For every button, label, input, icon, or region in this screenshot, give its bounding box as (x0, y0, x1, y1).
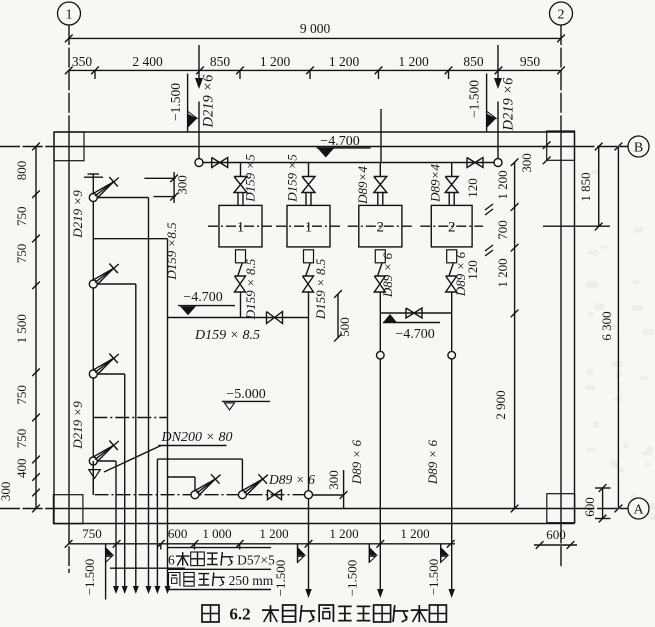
svg-text:D89 × 6: D89 × 6 (349, 439, 364, 485)
svg-text:300: 300 (175, 175, 190, 195)
svg-text:B: B (634, 140, 643, 155)
svg-text:300: 300 (0, 482, 13, 502)
svg-text:800: 800 (14, 161, 29, 181)
svg-text:1 200: 1 200 (495, 258, 510, 287)
svg-text:1 500: 1 500 (14, 314, 29, 343)
svg-text:950: 950 (520, 54, 541, 69)
svg-text:2: 2 (377, 220, 385, 236)
svg-text:−4.700: −4.700 (183, 290, 222, 305)
svg-text:6 300: 6 300 (599, 311, 614, 340)
svg-text:D89 × 6: D89 × 6 (380, 252, 395, 298)
svg-text:−1.500: −1.500 (273, 560, 288, 597)
svg-text:500: 500 (337, 317, 352, 337)
svg-text:−1.500: −1.500 (426, 559, 441, 596)
svg-text:1 200: 1 200 (260, 54, 291, 69)
svg-text:D159 ×5: D159 ×5 (243, 154, 258, 203)
svg-text:−1.500: −1.500 (345, 560, 360, 597)
svg-text:750: 750 (14, 207, 29, 227)
svg-text:D159 ×8.5: D159 ×8.5 (164, 222, 179, 281)
svg-text:−1.500: −1.500 (168, 83, 183, 121)
svg-text:400: 400 (14, 458, 29, 478)
svg-text:2: 2 (558, 7, 565, 22)
svg-text:−5.000: −5.000 (226, 387, 265, 402)
svg-text:D159 × 8.5: D159 × 8.5 (243, 258, 258, 320)
svg-text:2: 2 (448, 220, 456, 236)
svg-text:2 900: 2 900 (493, 390, 508, 419)
svg-text:1 200: 1 200 (329, 54, 360, 69)
svg-text:750: 750 (14, 429, 29, 449)
svg-text:1: 1 (237, 220, 245, 236)
svg-text:D219 ×6: D219 ×6 (501, 77, 517, 132)
svg-text:1: 1 (305, 220, 313, 236)
svg-text:D89 × 6: D89 × 6 (268, 472, 315, 487)
svg-text:600: 600 (546, 527, 566, 542)
svg-text:A: A (633, 502, 644, 517)
svg-text:1 200: 1 200 (398, 54, 429, 69)
svg-text:1: 1 (66, 7, 73, 22)
svg-text:750: 750 (14, 244, 29, 264)
svg-text:350: 350 (72, 54, 93, 69)
svg-text:D159 × 8.5: D159 × 8.5 (313, 258, 328, 320)
svg-text:600: 600 (168, 526, 188, 541)
svg-text:D219 ×9: D219 ×9 (70, 401, 85, 450)
svg-text:DN200 × 80: DN200 × 80 (161, 430, 233, 445)
svg-text:D89×4: D89×4 (355, 166, 370, 205)
svg-text:1 200: 1 200 (329, 526, 358, 541)
svg-text:6: 6 (168, 553, 175, 568)
svg-text:D219 ×9: D219 ×9 (70, 190, 85, 239)
svg-text:750: 750 (14, 385, 29, 405)
svg-text:1 850: 1 850 (578, 172, 593, 201)
svg-text:1 200: 1 200 (495, 170, 510, 199)
svg-text:750: 750 (82, 526, 102, 541)
svg-text:−4.700: −4.700 (320, 134, 359, 149)
svg-text:D57×5: D57×5 (237, 553, 275, 568)
svg-text:9 000: 9 000 (300, 21, 331, 36)
svg-text:1 000: 1 000 (202, 526, 231, 541)
svg-text:6.2: 6.2 (229, 605, 250, 624)
svg-text:850: 850 (463, 54, 484, 69)
svg-text:850: 850 (210, 54, 231, 69)
svg-text:700: 700 (495, 220, 510, 240)
svg-text:−4.700: −4.700 (395, 327, 434, 342)
svg-text:600: 600 (582, 497, 597, 517)
svg-text:120: 120 (465, 178, 480, 198)
svg-text:D89×4: D89×4 (428, 164, 443, 203)
svg-text:D159 × 8.5: D159 × 8.5 (194, 328, 260, 343)
svg-text:−1.500: −1.500 (82, 559, 97, 596)
svg-text:250 mm: 250 mm (229, 573, 274, 588)
svg-text:D219 ×6: D219 ×6 (201, 74, 217, 129)
svg-text:300: 300 (326, 470, 341, 490)
svg-text:D89 × 6: D89 × 6 (425, 439, 440, 485)
svg-text:300: 300 (519, 153, 534, 173)
svg-text:120: 120 (465, 260, 480, 280)
svg-text:D159 ×5: D159 ×5 (285, 154, 300, 203)
svg-text:1 200: 1 200 (259, 526, 288, 541)
svg-text:1 200: 1 200 (400, 526, 429, 541)
svg-text:2 400: 2 400 (132, 54, 163, 69)
svg-text:−1.500: −1.500 (467, 80, 482, 118)
